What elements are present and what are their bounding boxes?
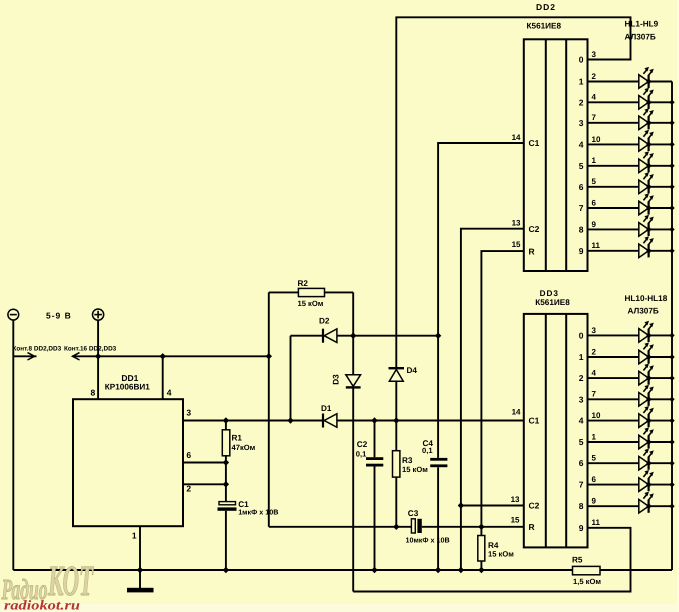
svg-text:R4: R4 xyxy=(488,541,499,550)
junction C2/bottom rail xyxy=(371,567,377,573)
svg-text:3: 3 xyxy=(592,326,597,335)
svg-text:4: 4 xyxy=(167,388,172,398)
svg-text:3: 3 xyxy=(186,408,191,418)
capacitor C2 xyxy=(374,421,376,458)
svg-text:Конт.16 DD2,DD3: Конт.16 DD2,DD3 xyxy=(64,345,117,352)
LED HL2 xyxy=(588,101,639,103)
svg-text:DD2: DD2 xyxy=(536,2,556,12)
wire bottom minus rail right part xyxy=(600,569,672,571)
svg-text:8: 8 xyxy=(579,224,584,234)
LED HL4 xyxy=(588,143,639,145)
IC DD2 box xyxy=(524,39,588,271)
svg-text:15: 15 xyxy=(512,240,521,249)
svg-text:R: R xyxy=(529,246,535,256)
junction R1 top / pin3 row xyxy=(223,417,229,423)
resistor R2 xyxy=(269,291,299,293)
junction pin6/R1 lead xyxy=(223,459,229,465)
wire DD3 C2 row xyxy=(461,505,524,507)
junction power row / drop xyxy=(266,353,272,359)
svg-text:5-9 В: 5-9 В xyxy=(46,311,72,321)
resistor R4 xyxy=(478,536,485,562)
svg-text:47кОм: 47кОм xyxy=(232,443,256,452)
IC DD1 box xyxy=(73,399,183,526)
svg-text:C1: C1 xyxy=(529,416,540,426)
svg-text:13: 13 xyxy=(512,219,521,228)
junction C2 line / DD3 C2 row xyxy=(458,502,464,508)
wire DD1 pin2 xyxy=(183,483,226,485)
capacitor C1 polarized xyxy=(219,502,236,505)
diode D2 xyxy=(291,335,324,337)
wire DD2 R line xyxy=(481,251,523,535)
LED HL10 xyxy=(588,334,639,336)
junction C1/bottom rail xyxy=(223,567,229,573)
svg-text:6: 6 xyxy=(579,182,584,192)
capacitor C4 xyxy=(430,458,447,461)
wire DD2 C2 to DD3 C2 and rail xyxy=(461,229,524,570)
svg-text:КР1006ВИ1: КР1006ВИ1 xyxy=(105,383,150,392)
svg-text:R3: R3 xyxy=(402,456,413,465)
junction R4/bottom rail xyxy=(478,567,484,573)
svg-text:HL1-HL9: HL1-HL9 xyxy=(625,20,659,29)
svg-text:DD3: DD3 xyxy=(540,289,559,298)
svg-text:15 кОм: 15 кОм xyxy=(298,299,324,308)
svg-text:15: 15 xyxy=(511,515,520,524)
svg-text:1,5 кОм: 1,5 кОм xyxy=(573,577,601,586)
svg-text:8: 8 xyxy=(90,388,95,398)
svg-text:1: 1 xyxy=(132,531,137,541)
diode D4 xyxy=(389,367,405,369)
svg-text:4: 4 xyxy=(592,369,597,378)
LED HL7 xyxy=(588,207,639,209)
wire minus vertical to bottom rail xyxy=(12,320,14,570)
svg-text:АЛ307Б: АЛ307Б xyxy=(625,32,656,41)
LED HL9 xyxy=(588,250,639,252)
battery plus terminal xyxy=(93,309,104,320)
junction D4 R3 / pin3 row xyxy=(393,417,399,423)
svg-text:5: 5 xyxy=(592,454,597,463)
svg-text:К561ИЕ8: К561ИЕ8 xyxy=(535,298,570,307)
svg-text:1мкФ х 10В: 1мкФ х 10В xyxy=(238,507,278,516)
wire top loop DD2 out0 to D4 xyxy=(396,17,630,368)
LED HL12 xyxy=(588,377,639,379)
junction rail DD3 out8 xyxy=(669,504,674,509)
resistor R3 xyxy=(395,421,397,451)
svg-text:C3: C3 xyxy=(408,509,419,518)
wire R2/D3 line xyxy=(352,292,354,374)
battery minus terminal xyxy=(8,309,19,320)
svg-text:5: 5 xyxy=(579,437,584,447)
svg-text:6: 6 xyxy=(592,475,597,484)
wire reset row left segment xyxy=(269,526,412,528)
svg-text:0,1: 0,1 xyxy=(422,446,433,455)
junction C4/bottom rail xyxy=(435,567,441,573)
svg-text:2: 2 xyxy=(592,72,597,81)
svg-text:0: 0 xyxy=(579,330,584,340)
junction rail DD3 out0 xyxy=(669,333,674,338)
svg-text:4: 4 xyxy=(579,416,584,426)
svg-text:10мкФ х 10В: 10мкФ х 10В xyxy=(406,536,450,545)
svg-text:C2: C2 xyxy=(357,440,368,449)
capacitor C3 polarized xyxy=(411,519,415,533)
LED HL3 xyxy=(588,122,639,124)
svg-text:6: 6 xyxy=(579,458,584,468)
junction rail DD2 out5 xyxy=(669,163,674,168)
junction rail DD2 out3 xyxy=(669,120,674,125)
svg-text:D4: D4 xyxy=(407,366,418,375)
wire plus power row with off-page arrow xyxy=(73,353,80,360)
wire DD1 pin8 xyxy=(97,356,99,399)
svg-text:15 кОм: 15 кОм xyxy=(402,465,428,474)
LED HL11 xyxy=(588,356,639,358)
diode D1 xyxy=(322,414,324,428)
svg-text:R5: R5 xyxy=(572,556,583,565)
LED HL15 xyxy=(588,441,639,443)
LED HL14 xyxy=(588,420,639,422)
svg-text:7: 7 xyxy=(579,203,584,213)
junction rail DD3 out4 xyxy=(669,418,674,423)
svg-text:11: 11 xyxy=(592,518,601,527)
svg-text:D2: D2 xyxy=(319,316,330,325)
svg-text:9: 9 xyxy=(592,497,597,506)
svg-text:15 кОм: 15 кОм xyxy=(488,550,514,559)
svg-text:14: 14 xyxy=(512,133,521,142)
junction D2 row / node A line xyxy=(435,333,441,339)
junction rail DD3 out1 xyxy=(669,354,674,359)
svg-text:8: 8 xyxy=(579,501,584,511)
wire DD1 pin1 xyxy=(139,526,141,570)
svg-text:1: 1 xyxy=(579,77,584,87)
junction rail DD2 out4 xyxy=(669,142,674,147)
svg-text:10: 10 xyxy=(592,135,601,144)
junction pin2/R1 lead xyxy=(223,481,229,487)
LED HL1 xyxy=(588,81,639,83)
svg-text:3: 3 xyxy=(592,50,597,59)
svg-text:radiokot.ru: radiokot.ru xyxy=(4,598,81,612)
svg-text:7: 7 xyxy=(579,480,584,490)
svg-text:1: 1 xyxy=(579,352,584,362)
svg-text:9: 9 xyxy=(592,220,597,229)
svg-text:Конт.8 DD2,DD3: Конт.8 DD2,DD3 xyxy=(13,345,62,352)
svg-text:6: 6 xyxy=(592,198,597,207)
svg-text:10: 10 xyxy=(592,411,601,420)
svg-text:0,1: 0,1 xyxy=(356,449,367,458)
svg-text:9: 9 xyxy=(579,523,584,533)
svg-text:D1: D1 xyxy=(321,404,332,413)
svg-text:5: 5 xyxy=(592,177,597,186)
junction R3/reset row xyxy=(393,524,399,530)
svg-text:7: 7 xyxy=(592,390,597,399)
LED HL8 xyxy=(588,228,639,230)
wire plus terminal drop xyxy=(97,320,99,356)
LED HL13 xyxy=(588,398,639,400)
junction rail DD2 out2 xyxy=(669,100,674,105)
svg-text:13: 13 xyxy=(511,495,520,504)
junction rail DD2 out8 xyxy=(669,227,674,232)
svg-text:HL10-HL18: HL10-HL18 xyxy=(625,294,668,303)
wire power row drop to R2 and reset row xyxy=(268,292,270,526)
svg-text:4: 4 xyxy=(592,93,597,102)
svg-text:3: 3 xyxy=(579,118,584,128)
junction rail DD2 out7 xyxy=(669,205,674,210)
junction plus/power row xyxy=(95,353,101,359)
wire LED cathode rail xyxy=(671,82,673,571)
wire DD3 out9 to D3 cathode xyxy=(353,528,630,592)
diode D3 xyxy=(346,375,361,387)
junction D2 row / D3 line xyxy=(350,333,356,339)
junction R line / reset row xyxy=(478,524,484,530)
wire D2 row drop from pin3 row xyxy=(290,336,292,421)
junction pin1/bottom rail xyxy=(137,567,143,573)
LED HL16 xyxy=(588,462,639,464)
svg-text:11: 11 xyxy=(592,241,601,250)
junction rail DD3 out5 xyxy=(669,439,674,444)
svg-text:R1: R1 xyxy=(232,434,243,443)
svg-text:D3: D3 xyxy=(332,374,341,385)
svg-text:C1: C1 xyxy=(529,138,540,148)
ground symbol xyxy=(139,570,141,588)
wire minus arrow stub to pin8 of DD2 DD3 xyxy=(13,355,36,357)
svg-text:4: 4 xyxy=(579,139,584,149)
svg-text:К561ИЕ8: К561ИЕ8 xyxy=(527,22,562,31)
wire DD1 pin4 xyxy=(162,356,164,399)
junction C2 line / bottom rail xyxy=(458,567,464,573)
IC DD3 box xyxy=(524,314,588,548)
junction rail DD3 out2 xyxy=(669,375,674,380)
LED HL5 xyxy=(588,165,639,167)
svg-text:2: 2 xyxy=(579,373,584,383)
junction rail DD3 out6 xyxy=(669,461,674,466)
svg-text:R2: R2 xyxy=(298,279,309,288)
junction D2 drop / pin3 row xyxy=(287,417,293,423)
svg-text:7: 7 xyxy=(592,113,597,122)
svg-text:R: R xyxy=(529,522,535,532)
svg-text:1: 1 xyxy=(592,156,597,165)
junction C2 top / pin3 row xyxy=(371,417,377,423)
svg-text:5: 5 xyxy=(579,161,584,171)
junction pin4/power row xyxy=(160,353,166,359)
svg-text:3: 3 xyxy=(579,394,584,404)
svg-text:9: 9 xyxy=(579,246,584,256)
svg-text:C2: C2 xyxy=(529,224,540,234)
svg-text:C2: C2 xyxy=(529,501,540,511)
svg-text:2: 2 xyxy=(592,347,597,356)
wire DD2 C1 node A line xyxy=(438,143,524,458)
svg-text:1: 1 xyxy=(592,432,597,441)
svg-text:0: 0 xyxy=(579,55,584,65)
junction rail DD2 out6 xyxy=(669,184,674,189)
LED HL6 xyxy=(588,186,639,188)
wire bottom minus rail left part xyxy=(13,569,572,571)
junction rail DD2 out9 xyxy=(669,248,674,253)
wire DD2 out0 xyxy=(588,59,631,61)
junction rail DD3 out7 xyxy=(669,482,674,487)
svg-text:2: 2 xyxy=(579,97,584,107)
svg-text:АЛ307Б: АЛ307Б xyxy=(628,307,659,316)
LED HL17 xyxy=(588,484,639,486)
wire DD1 pin3 row to DD3 C1 xyxy=(183,420,524,422)
wire DD1 pin6 xyxy=(183,462,226,464)
resistor R1 xyxy=(225,421,227,430)
LED HL18 xyxy=(588,505,639,507)
resistor R5 xyxy=(573,566,601,574)
junction rail DD3 out3 xyxy=(669,397,674,402)
svg-text:6: 6 xyxy=(186,450,191,460)
svg-text:14: 14 xyxy=(512,408,521,417)
